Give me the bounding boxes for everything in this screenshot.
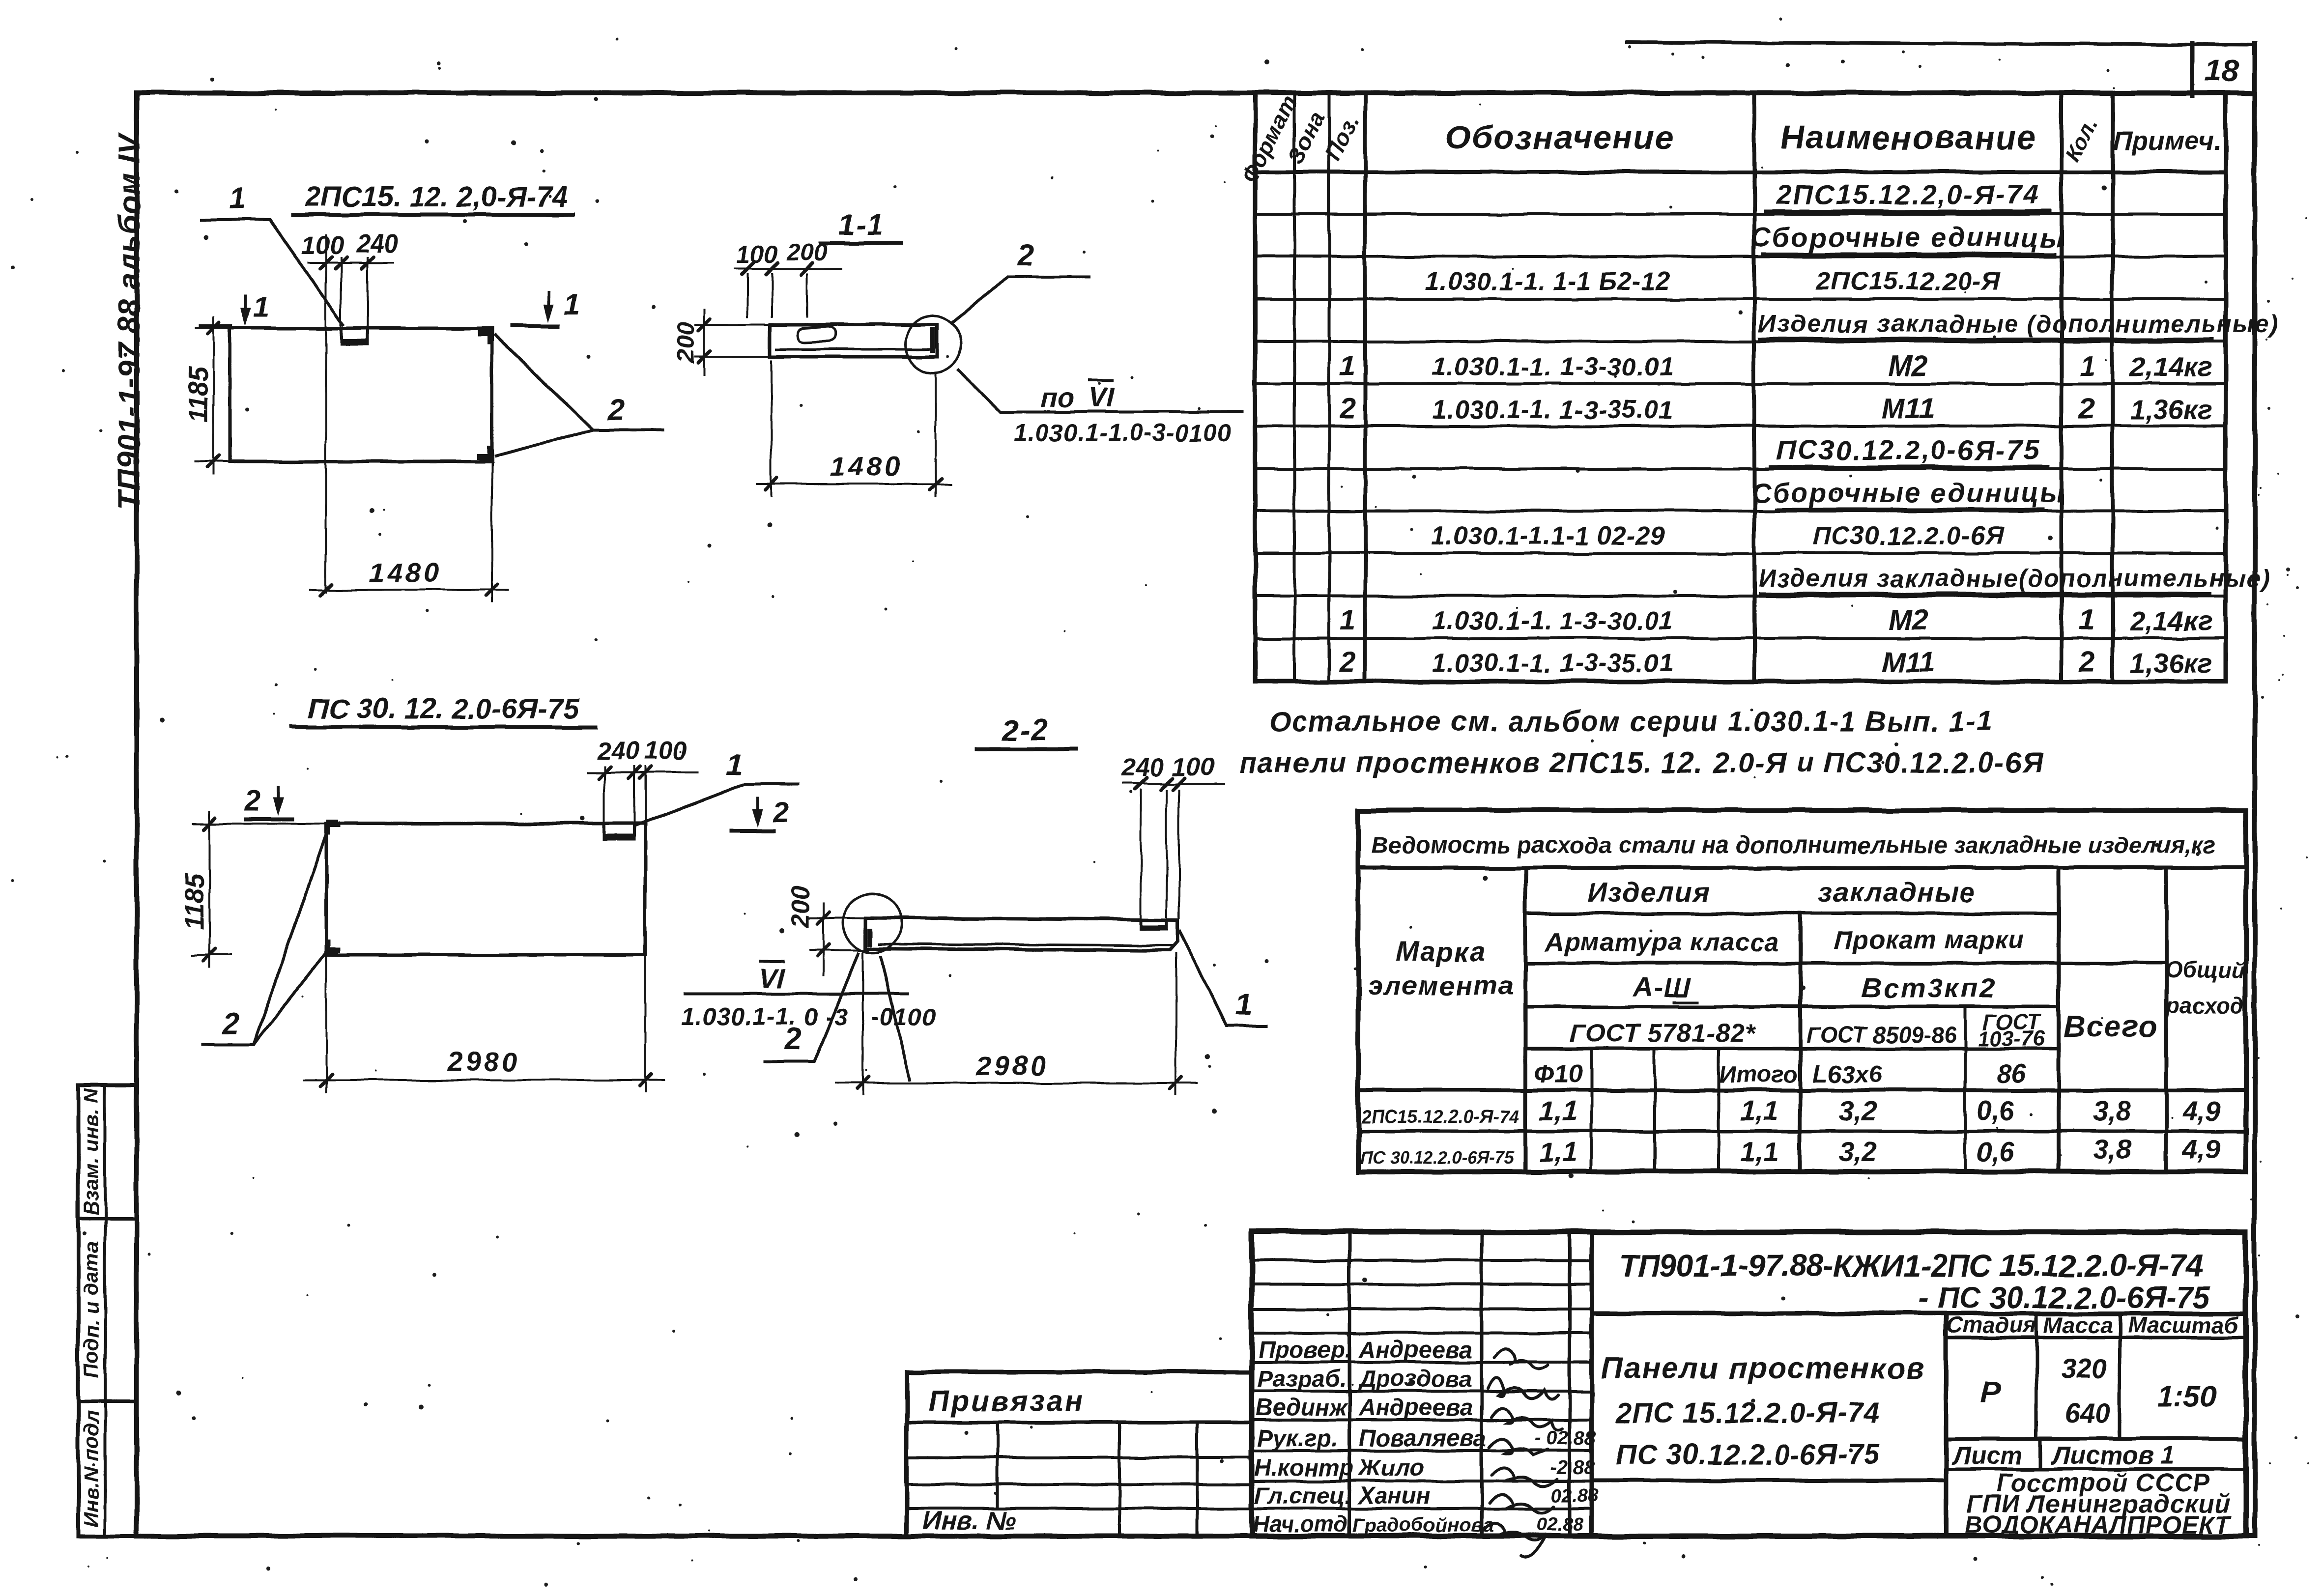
svg-text:1.030.1-1. 0 -3: 1.030.1-1. 0 -3 bbox=[681, 1003, 848, 1030]
svg-text:Н.контр: Н.контр bbox=[1254, 1455, 1354, 1481]
spec row lines bbox=[1255, 213, 2226, 216]
panel1 dim 1480 bbox=[310, 589, 509, 591]
svg-text:Лист: Лист bbox=[1951, 1442, 2023, 1470]
svg-text:200: 200 bbox=[786, 238, 828, 266]
svg-text:по: по bbox=[1041, 382, 1074, 413]
svg-text:1,1: 1,1 bbox=[1539, 1136, 1577, 1167]
svg-text:Стадия: Стадия bbox=[1946, 1312, 2036, 1338]
svg-text:Поваляева: Поваляева bbox=[1359, 1425, 1486, 1452]
1-1 dim 200 left bbox=[703, 310, 705, 374]
svg-text:1.030.1-1. 1-3-35.01: 1.030.1-1. 1-3-35.01 bbox=[1432, 396, 1673, 424]
list divider bbox=[2039, 1439, 2042, 1469]
name cell bottom bbox=[1592, 1479, 1946, 1482]
svg-text:VI: VI bbox=[1088, 382, 1115, 413]
vedomost outer bbox=[1358, 810, 2246, 1171]
svg-text:103-76: 103-76 bbox=[1978, 1026, 2045, 1051]
side tab outer bbox=[78, 1084, 137, 1536]
svg-text:-0100: -0100 bbox=[871, 1003, 936, 1030]
vedomost data row divider bbox=[1358, 1130, 2246, 1133]
1-1 end plate bbox=[930, 327, 935, 353]
spec col zona bbox=[1328, 93, 1331, 682]
spec col oboznachenie bbox=[1752, 93, 1756, 682]
panel2 dim 2980 bbox=[305, 1079, 663, 1081]
svg-text:2ПС15.12.2.0-Я-74: 2ПС15.12.2.0-Я-74 bbox=[1361, 1107, 1519, 1127]
svg-text:3,2: 3,2 bbox=[1838, 1095, 1877, 1126]
svg-text:4,9: 4,9 bbox=[2182, 1134, 2221, 1165]
svg-text:Гл.спец.: Гл.спец. bbox=[1254, 1483, 1351, 1509]
side tab dividers bbox=[78, 1218, 137, 1221]
right border upper segment bbox=[2252, 44, 2257, 94]
privyazan rows bbox=[907, 1456, 1252, 1459]
1-1 dim 100-200 extensions bbox=[746, 274, 748, 317]
svg-text:Вст3кп2: Вст3кп2 bbox=[1862, 972, 1997, 1003]
svg-text:ПС 30. 12. 2.0-6Я-75: ПС 30. 12. 2.0-6Я-75 bbox=[308, 693, 579, 725]
svg-text:Прокат марки: Прокат марки bbox=[1835, 926, 2025, 954]
panel2 corner plate top left bbox=[328, 822, 338, 835]
svg-text:1.030.1-1. 1-3-30.01: 1.030.1-1. 1-3-30.01 bbox=[1432, 353, 1673, 381]
vedomost col marka bbox=[1523, 868, 1527, 1171]
vedomost header bottom bbox=[1358, 1088, 2246, 1092]
vedomost line under GOST bbox=[1525, 1047, 2059, 1051]
svg-text:Андреева: Андреева bbox=[1358, 1395, 1472, 1421]
list row bottom bbox=[1946, 1468, 2246, 1471]
2-2 dim line top bbox=[1123, 783, 1224, 785]
svg-text:-2.88: -2.88 bbox=[1550, 1457, 1595, 1479]
panel2 notch bbox=[604, 824, 634, 839]
svg-text:Привязан: Привязан bbox=[928, 1385, 1085, 1418]
vedomost line under A-III bbox=[1525, 1005, 2059, 1009]
svg-text:2: 2 bbox=[244, 785, 260, 817]
svg-text:Листов 1: Листов 1 bbox=[2050, 1442, 2175, 1470]
svg-text:L63x6: L63x6 bbox=[1812, 1060, 1883, 1088]
svg-text:18: 18 bbox=[2205, 54, 2238, 88]
svg-text:86: 86 bbox=[1997, 1060, 2026, 1088]
2-2 end plate left bbox=[868, 929, 873, 946]
svg-text:1: 1 bbox=[1340, 350, 1355, 382]
svg-text:1185: 1185 bbox=[184, 366, 213, 423]
panel2 dim 1185 bbox=[208, 812, 210, 967]
1-1 detail circle bbox=[905, 316, 962, 373]
svg-text:1: 1 bbox=[254, 291, 269, 323]
sig col dividers bbox=[1348, 1232, 1351, 1536]
spec table outer left bbox=[1253, 93, 1258, 682]
svg-text:1.030.1-1. 1-1 Б2-12: 1.030.1-1. 1-1 Б2-12 bbox=[1425, 267, 1670, 296]
svg-text:2ПС15.12.2,0-Я-74: 2ПС15.12.2,0-Я-74 bbox=[1776, 179, 2040, 210]
svg-text:Жило: Жило bbox=[1357, 1455, 1424, 1481]
panel2 body bbox=[326, 824, 645, 955]
svg-text:3,2: 3,2 bbox=[1838, 1136, 1877, 1167]
svg-text:2: 2 bbox=[222, 1007, 239, 1041]
sig empty row lines bbox=[1252, 1259, 1592, 1262]
svg-text:1,1: 1,1 bbox=[1740, 1136, 1778, 1167]
svg-text:ПС 30.12.2.0-6Я-75: ПС 30.12.2.0-6Я-75 bbox=[1360, 1148, 1515, 1168]
svg-text:Масштаб: Масштаб bbox=[2127, 1312, 2239, 1338]
1-1 dim line top bbox=[735, 268, 841, 270]
panel2 section mark 2 left bbox=[244, 817, 294, 821]
svg-text:Подп. и дата: Подп. и дата bbox=[80, 1242, 103, 1378]
panel2 dim 240-100 extensions bbox=[603, 767, 605, 822]
svg-text:Дроздова: Дроздова bbox=[1357, 1366, 1472, 1392]
svg-text:1.030.1-1. 1-3-30.01: 1.030.1-1. 1-3-30.01 bbox=[1432, 607, 1673, 635]
svg-text:Ведомость расхода стали на: Ведомость расхода стали на дополнительны… bbox=[1371, 832, 2216, 858]
svg-text:Масса: Масса bbox=[2043, 1312, 2113, 1338]
panel1 tick marks bbox=[320, 257, 332, 269]
svg-text:1,36кг: 1,36кг bbox=[2130, 394, 2212, 425]
svg-text:240: 240 bbox=[597, 737, 640, 765]
svg-text:100: 100 bbox=[301, 231, 344, 260]
svg-text:2: 2 bbox=[1339, 393, 1355, 425]
svg-text:Изделия закладные (дополнитель: Изделия закладные (дополнительные) bbox=[1758, 310, 2279, 338]
1-1 ticks bbox=[742, 263, 753, 275]
svg-text:М11: М11 bbox=[1882, 646, 1935, 678]
svg-text:Арматура класса: Арматура класса bbox=[1545, 928, 1779, 957]
svg-text:ПС 30.12.2.0-6Я-75: ПС 30.12.2.0-6Я-75 bbox=[1616, 1439, 1880, 1471]
svg-text:Взам. инв. N: Взам. инв. N bbox=[80, 1087, 103, 1216]
svg-text:ТП901-1-97.88-КЖИ1-2ПС 15.12.2: ТП901-1-97.88-КЖИ1-2ПС 15.12.2.0-Я-74 bbox=[1618, 1248, 2203, 1283]
1-1 bar bbox=[770, 325, 937, 357]
svg-text:Сборочные единицы: Сборочные единицы bbox=[1751, 222, 2065, 253]
svg-text:Изделия: Изделия bbox=[1587, 877, 1711, 908]
svg-text:240: 240 bbox=[1121, 754, 1164, 782]
stadia col bbox=[1944, 1313, 1949, 1536]
svg-text:200: 200 bbox=[787, 886, 814, 928]
signatures bbox=[1483, 1349, 1562, 1558]
spec col kol bbox=[2111, 93, 2115, 682]
svg-text:элемента: элемента bbox=[1368, 970, 1515, 1001]
svg-text:Андреева: Андреева bbox=[1358, 1337, 1472, 1363]
svg-text:- ПС 30.12.2.0-6Я-75: - ПС 30.12.2.0-6Я-75 bbox=[1919, 1281, 2210, 1315]
2-2 ticks bbox=[1135, 778, 1147, 790]
list row top bbox=[1946, 1437, 2246, 1441]
svg-text:ТП901-1-97.88 альбом IV: ТП901-1-97.88 альбом IV bbox=[113, 132, 146, 510]
svg-text:Разраб.: Разраб. bbox=[1257, 1366, 1347, 1392]
svg-text:640: 640 bbox=[2064, 1397, 2110, 1428]
svg-text:Нач.отд: Нач.отд bbox=[1253, 1511, 1347, 1537]
svg-text:2ПС 15.12.2.0-Я-74: 2ПС 15.12.2.0-Я-74 bbox=[1615, 1397, 1880, 1429]
svg-text:3,8: 3,8 bbox=[2093, 1134, 2132, 1165]
2-2 leader extra diagonal bbox=[881, 955, 910, 1081]
svg-text:1: 1 bbox=[564, 289, 580, 321]
panel1 section mark 1 right bbox=[511, 324, 560, 328]
svg-text:расход: расход bbox=[2165, 993, 2244, 1018]
svg-text:Панели простенков: Панели простенков bbox=[1601, 1351, 1926, 1385]
panel1 corner plate bottom right bbox=[479, 446, 489, 459]
svg-text:Сборочные единицы: Сборочные единицы bbox=[1751, 477, 2065, 508]
panel2 section mark 2 right bbox=[729, 828, 775, 832]
svg-text:ГОСТ 5781-82*: ГОСТ 5781-82* bbox=[1570, 1019, 1756, 1048]
doc number cell bottom bbox=[1592, 1311, 2246, 1316]
svg-text:2ПС15. 12. 2,0-Я-74: 2ПС15. 12. 2,0-Я-74 bbox=[304, 181, 568, 213]
svg-text:ПС30.12.2,0-6Я-75: ПС30.12.2,0-6Я-75 bbox=[1777, 434, 2040, 465]
panel1 dim 1185 bbox=[212, 317, 214, 474]
vedomost line under izdeliya bbox=[1525, 912, 2059, 915]
spec table right bbox=[2224, 93, 2228, 682]
svg-text:Инв.N подл: Инв.N подл bbox=[80, 1410, 103, 1527]
svg-text:1.030.1-1.0-3-0100: 1.030.1-1.0-3-0100 bbox=[1014, 419, 1232, 447]
svg-text:2980: 2980 bbox=[447, 1046, 521, 1077]
vedomost title bottom bbox=[1358, 866, 2246, 870]
2-2 dim 2980 bbox=[835, 1082, 1197, 1084]
svg-text:1,1: 1,1 bbox=[1740, 1095, 1778, 1126]
svg-text:1185: 1185 bbox=[180, 873, 209, 930]
vedomost subcol f10 bbox=[1590, 1049, 1593, 1171]
vedomost subcol gost103 bbox=[1964, 1007, 1967, 1171]
svg-text:0,6: 0,6 bbox=[1976, 1095, 2015, 1126]
panel1 dim 100-240 extensions bbox=[325, 236, 327, 592]
spec header bottom bbox=[1255, 170, 2226, 174]
svg-text:Вединж: Вединж bbox=[1256, 1395, 1348, 1421]
title block main divider bbox=[1590, 1232, 1594, 1536]
svg-text:Обозначение: Обозначение bbox=[1445, 119, 1674, 156]
svg-text:200: 200 bbox=[672, 322, 699, 364]
svg-text:Остальное см. альбом сери: Остальное см. альбом серии 1.030.1-1 Вып… bbox=[1269, 706, 1993, 738]
svg-text:Итого: Итого bbox=[1719, 1062, 1798, 1088]
1-1 left slot bbox=[797, 327, 835, 342]
svg-text:1: 1 bbox=[726, 748, 743, 782]
2-2 dim 240-100 extensions bbox=[1140, 790, 1142, 917]
vedomost line under armatura bbox=[1525, 962, 2166, 965]
panel1 section mark 1 left bbox=[199, 324, 233, 328]
spec col format bbox=[1293, 93, 1296, 682]
svg-text:Изделия закладные(дополнительн: Изделия закладные(дополнительные) bbox=[1758, 565, 2271, 592]
svg-text:1: 1 bbox=[2079, 350, 2095, 382]
svg-text:1-1: 1-1 bbox=[838, 208, 884, 241]
svg-text:Провер.: Провер. bbox=[1258, 1337, 1351, 1363]
vedomost col prokat right bbox=[2057, 868, 2061, 1171]
svg-text:М2: М2 bbox=[1889, 604, 1928, 636]
svg-text:02.88: 02.88 bbox=[1551, 1485, 1599, 1506]
svg-text:2-2: 2-2 bbox=[1002, 713, 1048, 746]
svg-text:Ф10: Ф10 bbox=[1534, 1060, 1583, 1088]
spec col poz bbox=[1363, 93, 1367, 682]
svg-text:2ПС15.12.20-Я: 2ПС15.12.20-Я bbox=[1816, 267, 2001, 296]
svg-text:1: 1 bbox=[1340, 604, 1355, 636]
sig name row lines bbox=[1252, 1361, 1592, 1364]
svg-text:Ханин: Ханин bbox=[1357, 1483, 1431, 1509]
svg-text:1480: 1480 bbox=[369, 557, 442, 588]
stadia header bottom bbox=[1946, 1336, 2246, 1339]
svg-text:02.88: 02.88 bbox=[1537, 1514, 1584, 1535]
2-2 notch right bbox=[1141, 920, 1167, 929]
svg-text:320: 320 bbox=[2061, 1353, 2106, 1384]
svg-text:2980: 2980 bbox=[975, 1050, 1049, 1081]
svg-text:100: 100 bbox=[1172, 753, 1215, 781]
svg-text:2,14кг: 2,14кг bbox=[2129, 351, 2212, 382]
side tab label col bbox=[104, 1084, 107, 1536]
svg-text:2: 2 bbox=[1339, 646, 1355, 678]
svg-text:Общий: Общий bbox=[2165, 957, 2245, 983]
1-1 dim 1480 bbox=[757, 483, 951, 485]
panel1 notch bbox=[341, 328, 368, 344]
svg-text:2: 2 bbox=[607, 393, 625, 427]
svg-text:1.030.1-1. 1-3-35.01: 1.030.1-1. 1-3-35.01 bbox=[1432, 649, 1673, 678]
svg-text:2: 2 bbox=[1017, 238, 1034, 272]
privyazan cols bbox=[996, 1423, 999, 1509]
svg-text:- 02.88: - 02.88 bbox=[1535, 1427, 1596, 1449]
privyazan outer bbox=[907, 1372, 1252, 1536]
svg-text:1.030.1-1.1-1 02-29: 1.030.1-1.1-1 02-29 bbox=[1431, 522, 1665, 550]
svg-text:1: 1 bbox=[2079, 604, 2095, 636]
svg-text:2: 2 bbox=[2079, 646, 2095, 678]
title block outer bbox=[1252, 1232, 2246, 1536]
svg-text:100: 100 bbox=[736, 241, 777, 268]
2-2 detail circle bbox=[843, 893, 902, 952]
svg-text:3,8: 3,8 bbox=[2093, 1095, 2132, 1126]
svg-text:Инв. №: Инв. № bbox=[923, 1507, 1016, 1535]
svg-text:1:50: 1:50 bbox=[2157, 1380, 2216, 1413]
svg-text:VI: VI bbox=[759, 963, 785, 994]
svg-text:Марка: Марка bbox=[1397, 936, 1487, 967]
privyazan header bottom bbox=[907, 1421, 1252, 1425]
2-2 dim 200 left bbox=[822, 903, 824, 975]
svg-text:1,1: 1,1 bbox=[1539, 1095, 1577, 1126]
svg-text:2: 2 bbox=[773, 796, 789, 828]
panel1 dim line top bbox=[309, 262, 393, 264]
spec col naimenovanie bbox=[2060, 93, 2064, 682]
svg-text:Р: Р bbox=[1981, 1374, 2002, 1410]
panel2 ticks bbox=[599, 767, 610, 778]
top edge strip line bbox=[1627, 42, 2255, 45]
svg-text:М2: М2 bbox=[1889, 350, 1928, 382]
svg-text:Градобойнова: Градобойнова bbox=[1352, 1514, 1494, 1536]
svg-text:закладные: закладные bbox=[1818, 877, 1976, 908]
1-1 leader po VI bbox=[958, 370, 1243, 412]
vedomost col armatura/prokat bbox=[1798, 913, 1802, 1171]
svg-text:ГОСТ 8509-86: ГОСТ 8509-86 bbox=[1806, 1022, 1956, 1048]
svg-text:ПС30.12.2.0-6Я: ПС30.12.2.0-6Я bbox=[1812, 522, 2004, 550]
svg-text:1,36кг: 1,36кг bbox=[2130, 648, 2212, 679]
panel1 body bbox=[230, 328, 492, 461]
svg-text:Всего: Всего bbox=[2063, 1010, 2158, 1044]
svg-text:0,6: 0,6 bbox=[1976, 1136, 2015, 1167]
svg-text:А-Ш: А-Ш bbox=[1632, 971, 1692, 1002]
svg-text:Наименование: Наименование bbox=[1780, 119, 2036, 156]
2-2 bar bbox=[866, 918, 1177, 950]
svg-text:1: 1 bbox=[229, 182, 246, 216]
svg-text:Рук.гр.: Рук.гр. bbox=[1257, 1425, 1338, 1452]
vedomost col vsego right bbox=[2164, 868, 2168, 1171]
svg-text:2: 2 bbox=[2079, 393, 2095, 425]
svg-text:ВОДОКАНАЛПРОЕКТ: ВОДОКАНАЛПРОЕКТ bbox=[1965, 1511, 2232, 1539]
svg-text:М11: М11 bbox=[1882, 393, 1935, 425]
panel1 corner plate top right bbox=[479, 330, 489, 344]
panel2 dim line top bbox=[588, 771, 698, 773]
svg-text:2,14кг: 2,14кг bbox=[2129, 605, 2212, 636]
svg-text:Примеч.: Примеч. bbox=[2113, 126, 2221, 156]
svg-text:1480: 1480 bbox=[830, 451, 903, 482]
sheet number box divider bbox=[2190, 43, 2195, 95]
svg-text:панели простенков 2ПС15. 12.: панели простенков 2ПС15. 12. 2.0-Я и ПС3… bbox=[1239, 747, 2043, 779]
svg-text:240: 240 bbox=[356, 230, 399, 258]
svg-text:1: 1 bbox=[1235, 988, 1252, 1022]
svg-text:4,9: 4,9 bbox=[2182, 1095, 2221, 1126]
panel2 corner plate bottom left bbox=[328, 939, 338, 953]
spec table bottom bbox=[1255, 680, 2226, 684]
